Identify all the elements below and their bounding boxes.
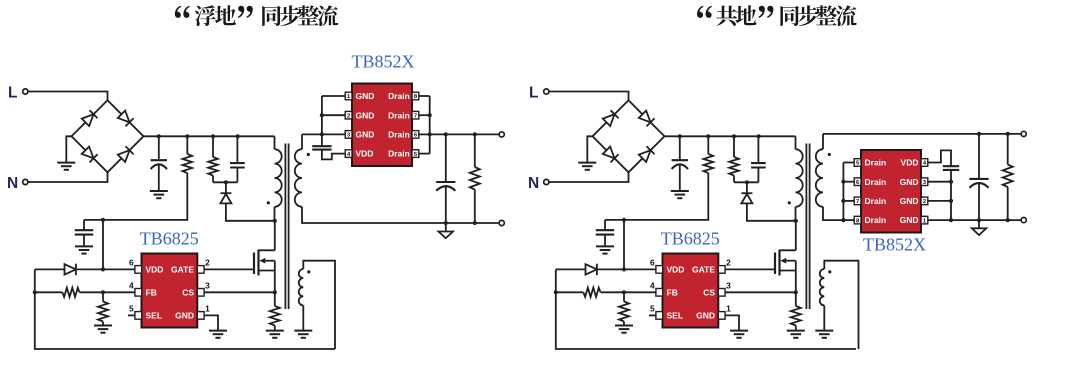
svg-text:2: 2 bbox=[726, 258, 731, 268]
svg-text:VDD: VDD bbox=[146, 265, 164, 275]
svg-text:Drain: Drain bbox=[865, 196, 887, 206]
svg-text:Drain: Drain bbox=[388, 110, 410, 120]
svg-text:2: 2 bbox=[347, 113, 350, 119]
svg-text:7: 7 bbox=[856, 199, 859, 205]
svg-text:2: 2 bbox=[923, 199, 926, 205]
svg-text:Drain: Drain bbox=[388, 149, 410, 159]
svg-text:Drain: Drain bbox=[865, 177, 887, 187]
svg-text:Drain: Drain bbox=[388, 130, 410, 140]
svg-text:FB: FB bbox=[146, 287, 157, 297]
svg-text:L: L bbox=[8, 85, 17, 102]
svg-text:CS: CS bbox=[182, 287, 194, 297]
svg-text:3: 3 bbox=[726, 280, 731, 290]
svg-text:CS: CS bbox=[703, 287, 715, 297]
svg-text:3: 3 bbox=[205, 280, 210, 290]
svg-text:2: 2 bbox=[205, 258, 210, 268]
svg-text:7: 7 bbox=[414, 113, 417, 119]
svg-text:SEL: SEL bbox=[667, 311, 684, 321]
svg-text:VDD: VDD bbox=[356, 149, 374, 159]
svg-text:Drain: Drain bbox=[865, 215, 887, 225]
svg-text:GATE: GATE bbox=[692, 265, 715, 275]
svg-text:TB6825: TB6825 bbox=[661, 228, 720, 248]
svg-text:GND: GND bbox=[696, 311, 715, 321]
svg-text:FB: FB bbox=[667, 287, 678, 297]
svg-text:TB852X: TB852X bbox=[863, 235, 926, 255]
svg-text:6: 6 bbox=[650, 258, 655, 268]
svg-text:6: 6 bbox=[129, 258, 134, 268]
svg-text:N: N bbox=[528, 175, 539, 192]
svg-text:GND: GND bbox=[356, 91, 375, 101]
svg-text:L: L bbox=[529, 85, 538, 102]
svg-text:1: 1 bbox=[205, 304, 210, 314]
svg-text:N: N bbox=[7, 175, 18, 192]
svg-text:Drain: Drain bbox=[865, 158, 887, 168]
svg-text:VDD: VDD bbox=[901, 158, 919, 168]
svg-text:GND: GND bbox=[356, 110, 375, 120]
svg-text:TB852X: TB852X bbox=[352, 52, 415, 72]
svg-text:GND: GND bbox=[900, 196, 919, 206]
svg-text:1: 1 bbox=[726, 304, 731, 314]
svg-text:SEL: SEL bbox=[146, 311, 163, 321]
svg-text:5: 5 bbox=[650, 304, 655, 314]
svg-text:GND: GND bbox=[356, 130, 375, 140]
svg-text:GND: GND bbox=[900, 177, 919, 187]
svg-text:GND: GND bbox=[900, 215, 919, 225]
svg-text:Drain: Drain bbox=[388, 91, 410, 101]
svg-text:GND: GND bbox=[175, 311, 194, 321]
svg-text:TB6825: TB6825 bbox=[140, 228, 199, 248]
svg-text:4: 4 bbox=[650, 280, 655, 290]
svg-text:4: 4 bbox=[129, 280, 134, 290]
svg-text:VDD: VDD bbox=[667, 265, 685, 275]
svg-text:GATE: GATE bbox=[171, 265, 194, 275]
svg-text:5: 5 bbox=[129, 304, 134, 314]
